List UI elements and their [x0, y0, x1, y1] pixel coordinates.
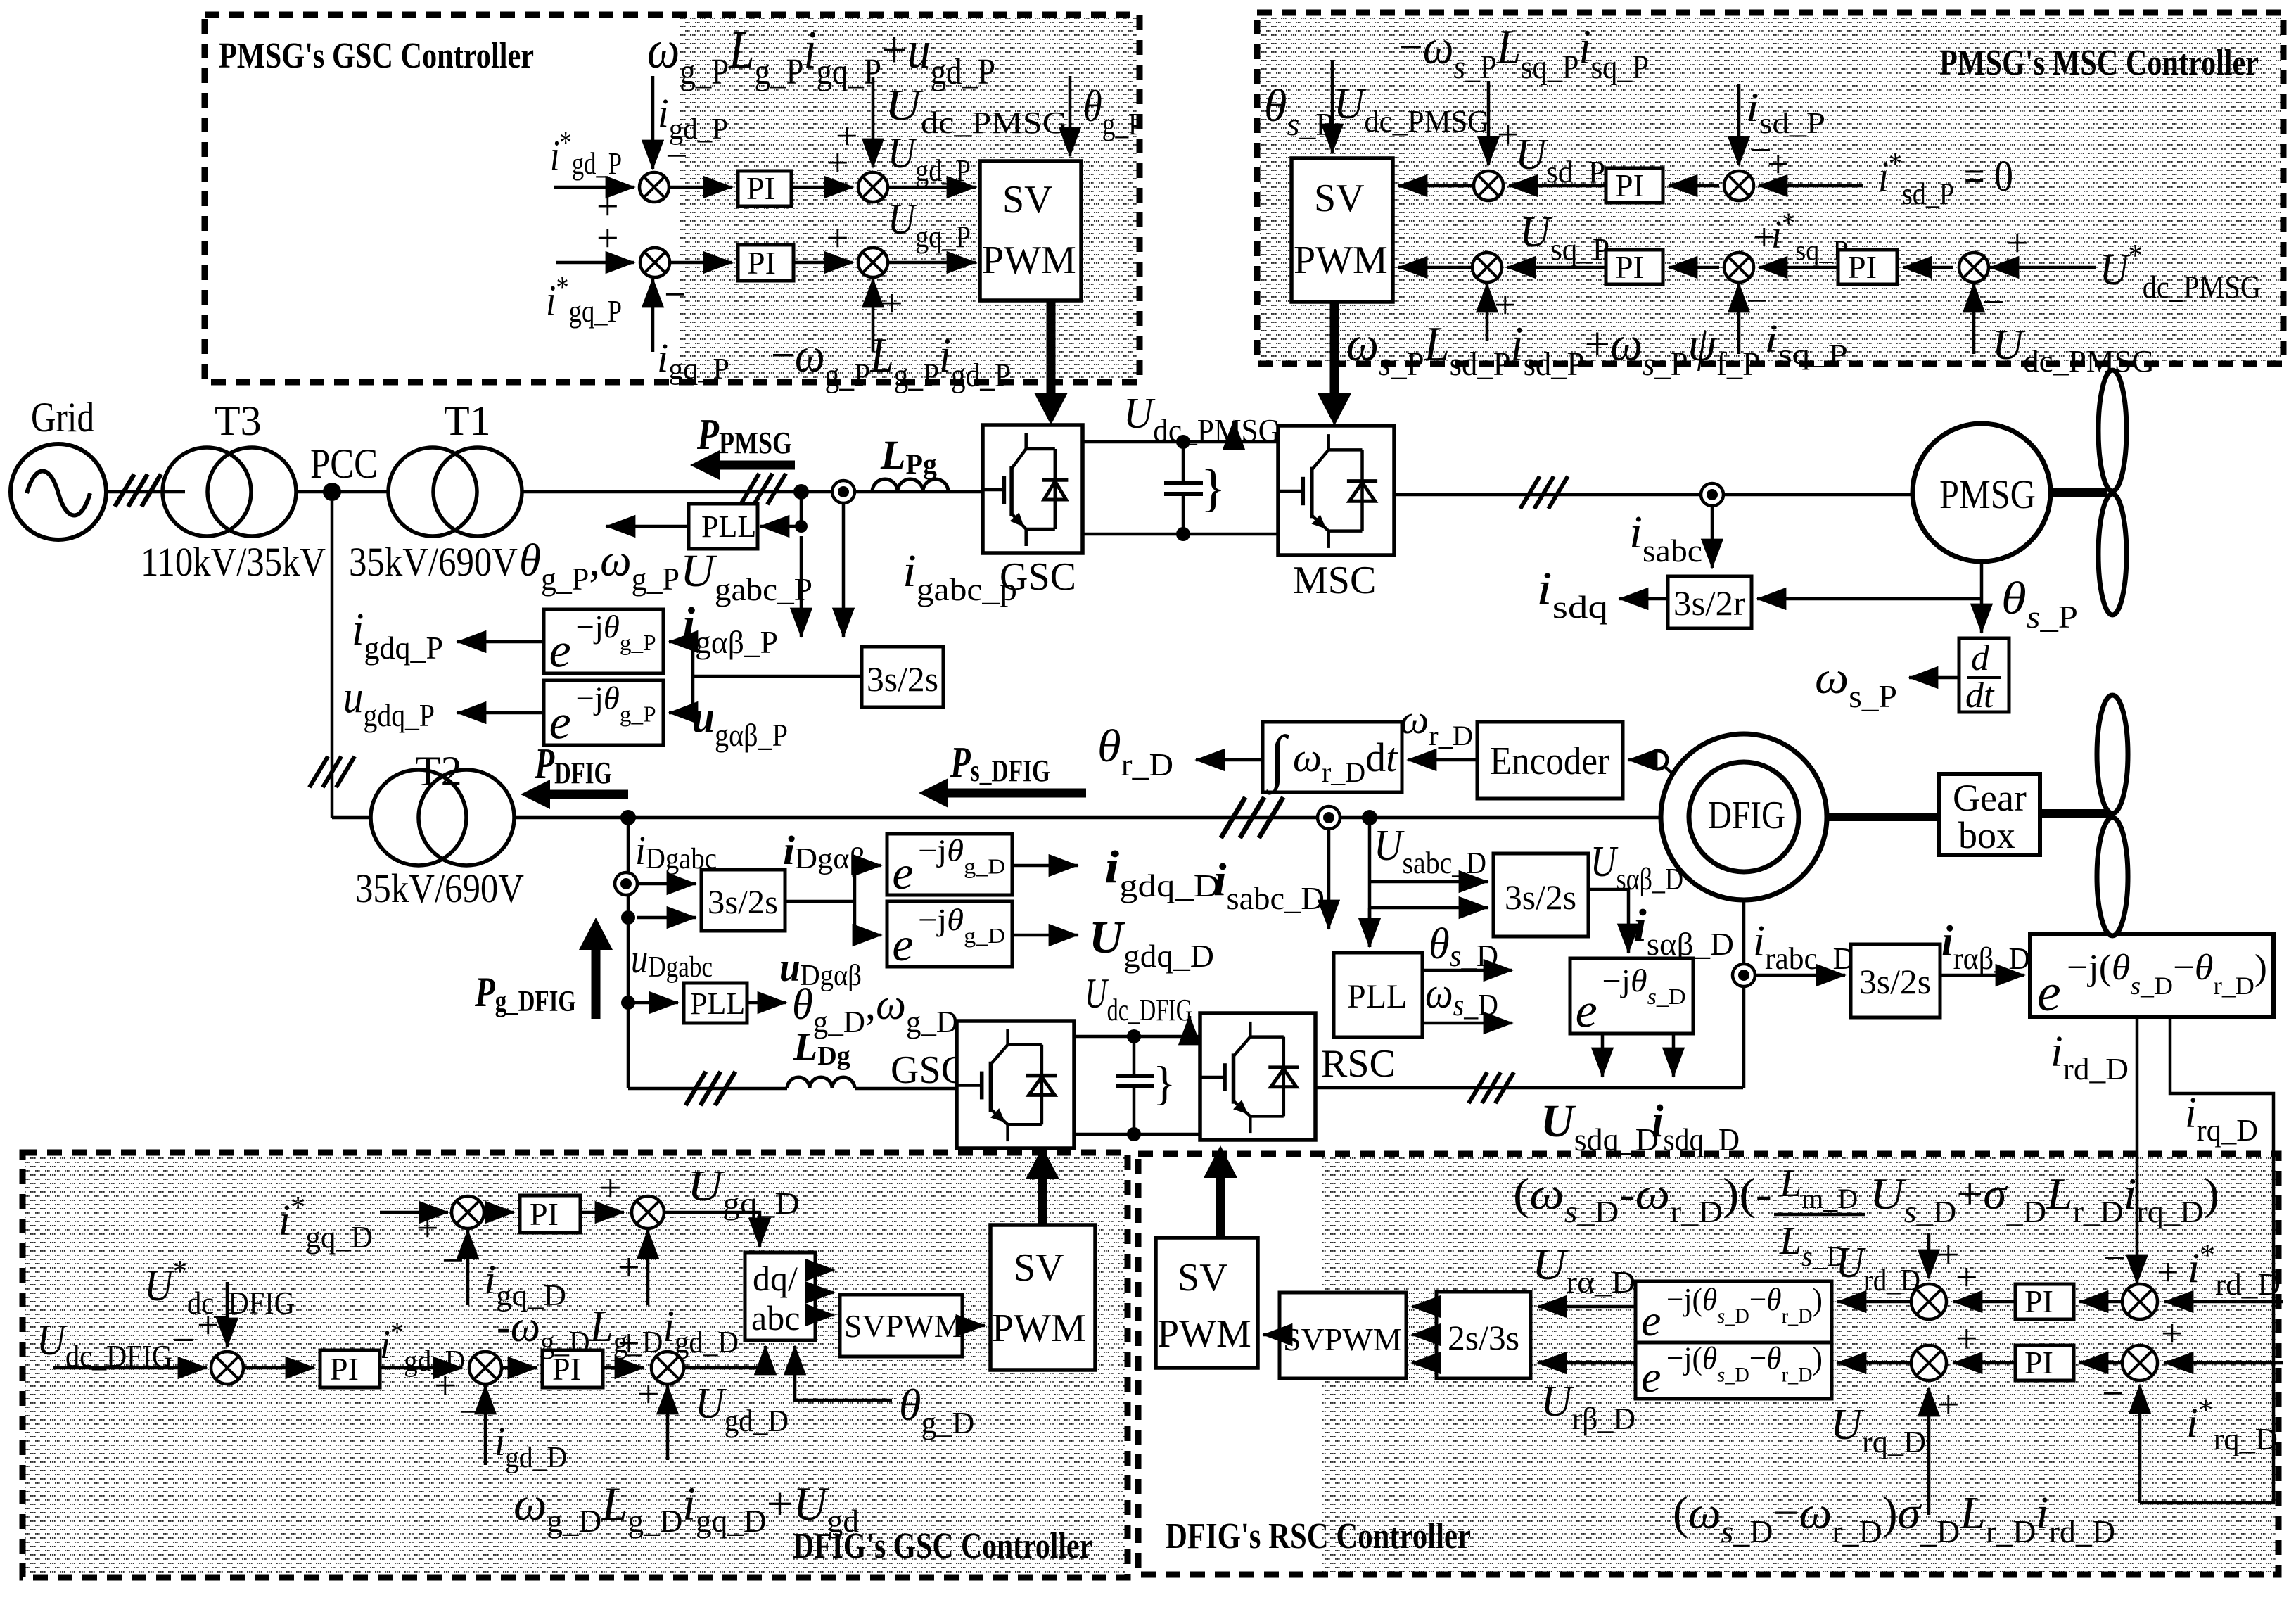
svg-text:−: −: [665, 134, 688, 178]
svg-text:PI: PI: [330, 1351, 359, 1387]
svg-text:+: +: [1753, 216, 1775, 260]
svg-text:SVPWM: SVPWM: [844, 1308, 963, 1344]
svg-text:dt: dt: [1965, 675, 1995, 716]
svg-text:RSC: RSC: [1321, 1042, 1396, 1086]
svg-text:+: +: [2006, 222, 2029, 265]
svg-text:−: −: [459, 1390, 481, 1434]
svg-text:110kV/35kV: 110kV/35kV: [141, 539, 326, 585]
svg-text:+: +: [827, 217, 849, 260]
svg-text:+: +: [1956, 1317, 1978, 1361]
svg-text:d: d: [1971, 638, 1990, 678]
svg-text:3s/2s: 3s/2s: [1505, 877, 1576, 917]
svg-text:Encoder: Encoder: [1490, 739, 1609, 783]
svg-text:PLL: PLL: [690, 986, 745, 1021]
svg-text:+: +: [2161, 1312, 2183, 1356]
svg-text:PMSG: PMSG: [1939, 471, 2036, 517]
svg-text:PI: PI: [747, 245, 776, 281]
svg-text:}: }: [1201, 459, 1226, 517]
svg-text:dq/: dq/: [753, 1259, 798, 1298]
svg-text:+: +: [197, 1304, 219, 1347]
svg-text:PI: PI: [1848, 249, 1877, 285]
svg-text:+: +: [637, 1373, 660, 1416]
svg-text:Grid: Grid: [31, 394, 94, 440]
svg-text:PI: PI: [2024, 1345, 2053, 1380]
svg-text:+: +: [597, 217, 619, 260]
svg-text:3s/2r: 3s/2r: [1673, 583, 1745, 623]
svg-text:e: e: [1576, 984, 1597, 1039]
svg-text:2s/3s: 2s/3s: [1448, 1318, 1519, 1357]
svg-text:+: +: [1956, 1256, 1978, 1300]
svg-text:3s/2s: 3s/2s: [1859, 962, 1931, 1001]
svg-text:+: +: [881, 282, 903, 326]
svg-text:DFIG: DFIG: [1708, 794, 1785, 837]
svg-text:abc: abc: [751, 1298, 800, 1338]
svg-text:e: e: [2037, 963, 2061, 1022]
svg-text:PI: PI: [1615, 167, 1644, 203]
svg-text:∫: ∫: [1265, 724, 1289, 795]
svg-text:T2: T2: [415, 748, 462, 794]
svg-text:+: +: [599, 1167, 622, 1210]
svg-text:Gear: Gear: [1953, 777, 2027, 819]
svg-text:+: +: [1937, 1383, 1960, 1427]
svg-text:PLL: PLL: [701, 509, 756, 544]
svg-text:+: +: [434, 1364, 457, 1408]
svg-text:DFIG's RSC Controller: DFIG's RSC Controller: [1166, 1516, 1471, 1556]
svg-text:box: box: [1958, 814, 2015, 856]
svg-text:T1: T1: [444, 398, 491, 444]
svg-text:PWM: PWM: [1157, 1312, 1251, 1356]
svg-text:PWM: PWM: [982, 239, 1076, 282]
svg-text:e: e: [549, 624, 571, 678]
svg-text:PI: PI: [1615, 249, 1644, 285]
svg-text:SV: SV: [1002, 178, 1053, 222]
svg-text:−: −: [664, 273, 687, 317]
svg-text:35kV/690V: 35kV/690V: [355, 865, 524, 911]
svg-text:35kV/690V: 35kV/690V: [349, 539, 518, 585]
svg-text:MSC: MSC: [1293, 559, 1376, 602]
svg-text:+: +: [1767, 143, 1790, 186]
svg-text:e: e: [1641, 1295, 1661, 1345]
svg-text:3s/2s: 3s/2s: [867, 659, 938, 699]
svg-text:−: −: [2103, 1237, 2126, 1281]
svg-text:−: −: [442, 1239, 464, 1283]
svg-text:SVPWM: SVPWM: [1283, 1321, 1402, 1357]
svg-text:SV: SV: [1178, 1256, 1228, 1300]
svg-text:PMSG's MSC Controller: PMSG's MSC Controller: [1939, 43, 2259, 83]
svg-text:+: +: [416, 1207, 439, 1250]
svg-text:e: e: [1641, 1352, 1661, 1402]
svg-text:+: +: [618, 1246, 640, 1290]
svg-text:+: +: [2157, 1251, 2179, 1295]
svg-text:PLL: PLL: [1347, 978, 1407, 1015]
svg-text:−: −: [1982, 281, 2005, 324]
svg-text:PWM: PWM: [1294, 239, 1388, 282]
svg-text:T3: T3: [215, 398, 262, 444]
svg-text:e: e: [892, 918, 913, 971]
svg-text:GSC: GSC: [1000, 555, 1076, 599]
svg-text:−: −: [1746, 279, 1768, 323]
svg-text:−: −: [2102, 1372, 2124, 1416]
svg-text:PWM: PWM: [992, 1307, 1086, 1350]
svg-text:+: +: [836, 115, 858, 158]
svg-text:PI: PI: [746, 170, 775, 206]
svg-text:PCC: PCC: [310, 440, 378, 487]
svg-text:}: }: [1153, 1056, 1176, 1110]
svg-text:SV: SV: [1314, 177, 1365, 220]
svg-text:SV: SV: [1014, 1246, 1064, 1290]
svg-text:PMSG's GSC Controller: PMSG's GSC Controller: [219, 36, 534, 76]
svg-text:3s/2s: 3s/2s: [708, 884, 778, 921]
svg-text:PI: PI: [530, 1196, 559, 1232]
svg-text:e: e: [892, 846, 913, 899]
svg-text:PI: PI: [2024, 1283, 2053, 1319]
